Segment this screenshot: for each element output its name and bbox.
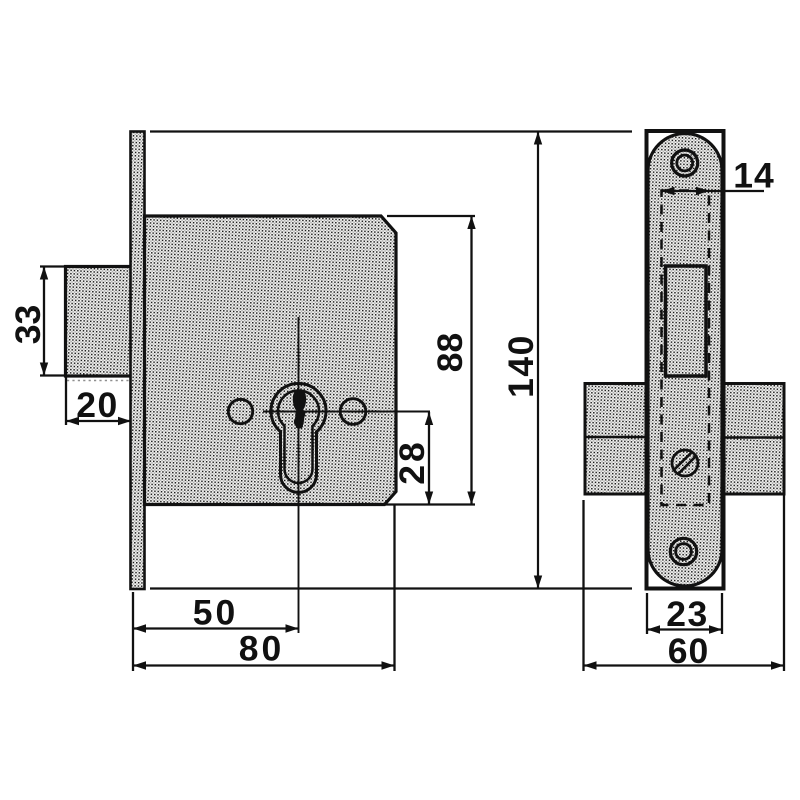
svg-text:14: 14 (733, 156, 775, 196)
svg-text:23: 23 (666, 594, 709, 634)
svg-text:80: 80 (239, 629, 285, 669)
svg-text:60: 60 (668, 631, 710, 671)
svg-text:33: 33 (8, 305, 48, 345)
svg-text:20: 20 (76, 385, 119, 425)
svg-text:28: 28 (392, 439, 432, 485)
svg-text:140: 140 (501, 334, 541, 398)
svg-text:88: 88 (430, 333, 470, 373)
svg-text:50: 50 (193, 593, 239, 633)
